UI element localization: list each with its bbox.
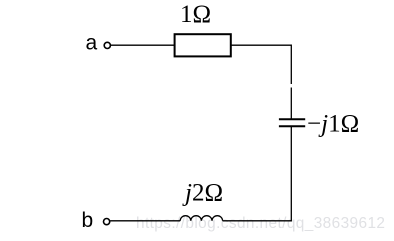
capacitor bottom plate: [279, 125, 305, 127]
svg-text:−j1Ω: −j1Ω: [307, 110, 359, 137]
terminal a: [104, 42, 110, 48]
wire b to inductor: [110, 220, 180, 222]
svg-text:b: b: [82, 209, 94, 232]
wire a to resistor: [111, 44, 175, 46]
wire vertical upper segment (corner down to small gap): [290, 45, 293, 84]
svg-text:a: a: [86, 32, 98, 55]
wire resistor to top-right corner: [231, 44, 291, 46]
terminal b: [104, 219, 110, 225]
svg-text:https://blog.csdn.net/qq_38639: https://blog.csdn.net/qq_38639612: [136, 215, 385, 232]
svg-text:1Ω: 1Ω: [180, 1, 211, 28]
resistor 1Ω body: [175, 34, 231, 56]
wire capacitor down to bottom-right corner: [290, 126, 293, 221]
wire inductor to bottom-right corner: [223, 220, 292, 222]
inductor j2Ω coil: [180, 216, 222, 221]
wire vertical segment gap-to-capacitor: [290, 88, 292, 120]
capacitor top plate: [279, 118, 305, 120]
svg-text:j2Ω: j2Ω: [182, 179, 223, 206]
